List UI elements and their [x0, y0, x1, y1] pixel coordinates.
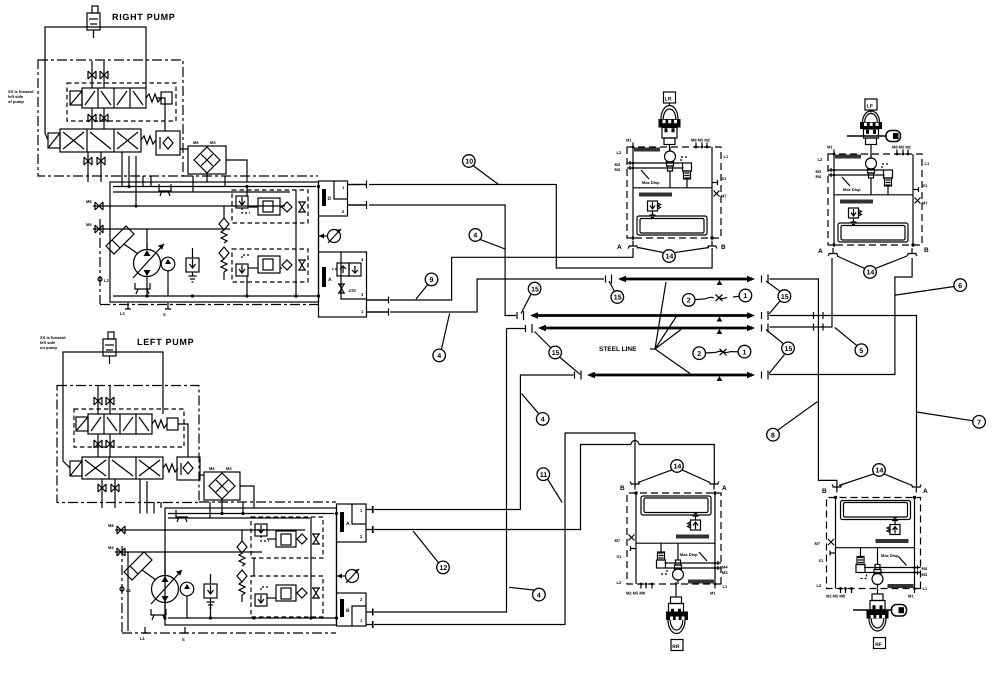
- motor RF core: [827, 496, 921, 593]
- A port block: [337, 504, 367, 542]
- flow tick line1: [717, 280, 723, 285]
- A block stub 2 tick: [366, 526, 373, 533]
- RF tiny labels: [815, 541, 928, 599]
- B block stub 1 tick: [366, 609, 373, 616]
- junction dots: [163, 616, 166, 619]
- X1 stub: [712, 180, 718, 185]
- callout 9: [416, 273, 438, 299]
- svg-text:M6: M6: [193, 140, 199, 145]
- svg-text:1: 1: [743, 349, 747, 356]
- motor core template drawn as LR motor: [627, 143, 721, 240]
- case drain port L2: [98, 277, 102, 281]
- interior manifold wires: [113, 186, 316, 188]
- svg-text:5: 5: [859, 348, 863, 355]
- M7 plug: [714, 191, 720, 197]
- wire X1 crossline: [633, 187, 712, 189]
- coupler break line1 right: [762, 275, 769, 284]
- callout 8: [767, 402, 818, 441]
- port marks left: [629, 161, 631, 170]
- case drain port L2: [120, 587, 124, 591]
- charge relief valve RV1: [186, 248, 199, 282]
- B block stub 2 tick: [366, 621, 373, 628]
- svg-text:L2: L2: [617, 580, 622, 585]
- svg-text:L1: L1: [140, 636, 145, 641]
- port L3: [125, 303, 131, 309]
- wire S1 right pump A1 to LR motor port A: [367, 248, 634, 300]
- displacement relief valve: [648, 201, 661, 218]
- svg-text:L1: L1: [723, 584, 728, 589]
- RF port B symbol: [832, 485, 842, 493]
- charge filter LF1: [204, 466, 240, 500]
- gauge LG1: [337, 569, 360, 583]
- interior riser wires: [295, 190, 297, 296]
- svg-text:L2: L2: [104, 278, 109, 283]
- wire W4 right pump D2 to steel line 2: [348, 205, 517, 316]
- callout 4 hose lower: [509, 587, 545, 601]
- svg-text:M8 M5 M2: M8 M5 M2: [892, 145, 912, 150]
- svg-text:M4: M4: [615, 167, 621, 172]
- A port stub S2 tick: [367, 309, 389, 316]
- svg-text:1: 1: [743, 293, 747, 300]
- svg-text:X1: X1: [819, 558, 825, 563]
- right boundary riser: [336, 542, 338, 593]
- dash-dot pump boundary upper: [57, 386, 199, 503]
- coupler break line4 left: [575, 371, 582, 380]
- callout 15 line2 left: [521, 282, 541, 313]
- svg-text:6: 6: [958, 283, 962, 290]
- svg-text:4: 4: [473, 233, 477, 240]
- pilot X pair below SV2: [84, 152, 105, 182]
- svg-text:LEFT PUMP: LEFT PUMP: [137, 337, 194, 347]
- svg-text:7: 7: [977, 420, 981, 427]
- svg-text:L2: L2: [617, 150, 622, 155]
- wire shuttle to filter: [200, 474, 204, 476]
- svg-text:M4: M4: [86, 222, 92, 227]
- wire steel line1 right extension to RF B: [770, 279, 837, 487]
- svg-text:B: B: [346, 608, 350, 614]
- inner dashed valve sub-box: [74, 409, 184, 447]
- svg-text:S: S: [182, 637, 185, 642]
- left supply line: [45, 61, 48, 140]
- hop arc over RR B riser: [631, 441, 639, 445]
- coupler symbol 2-x-1 upper: [682, 289, 751, 306]
- motor dashed enclosure: [627, 147, 721, 238]
- motor rotor circle: [665, 151, 676, 162]
- svg-text:2: 2: [697, 351, 701, 358]
- svg-text:4: 4: [537, 592, 541, 599]
- variable pump P1: [133, 243, 164, 278]
- steel line leader fan: [650, 282, 690, 374]
- svg-text:M4: M4: [922, 566, 928, 571]
- callout 15 lines34 right: [766, 330, 794, 374]
- coupling stack: [667, 162, 674, 166]
- RR brake and hub: [666, 582, 688, 651]
- svg-text:A: A: [346, 521, 350, 527]
- flow tick line2: [717, 317, 723, 322]
- dash-dot boundary lower-left: [121, 546, 123, 633]
- steel line 3: [538, 325, 755, 331]
- pilot orifice X pair above valve SV1: [88, 61, 108, 88]
- D port output line 2 tick: [348, 201, 367, 209]
- wire filter down: [206, 174, 208, 182]
- motor check group box LMC1: [251, 517, 323, 558]
- svg-text:L3: L3: [120, 311, 125, 316]
- wire SV1 to shuttle: [157, 98, 165, 131]
- svg-text:X1: X1: [617, 554, 623, 559]
- svg-text:M1: M1: [710, 591, 716, 596]
- svg-text:M7: M7: [922, 201, 928, 206]
- check column: [237, 530, 247, 602]
- svg-text:M4: M4: [722, 565, 728, 570]
- tank symbol: [176, 510, 188, 522]
- svg-text:M8: M8: [86, 199, 92, 204]
- svg-text:on pump: on pump: [40, 345, 57, 350]
- inlet check valve top: [103, 332, 116, 364]
- svg-text:L1: L1: [724, 154, 729, 159]
- pilot orifice X pair above valve LSV1: [94, 386, 114, 414]
- shuttle valve block: [156, 131, 180, 155]
- svg-text:RR: RR: [672, 644, 680, 650]
- pump feed riser: [146, 229, 148, 250]
- callout 7: [917, 412, 986, 428]
- A port stub S1 tick: [367, 297, 389, 304]
- motor check group box MC2: [232, 249, 308, 282]
- svg-text:M2 M5 M8: M2 M5 M8: [626, 591, 646, 596]
- callout 11: [537, 468, 562, 503]
- svg-text:Max Disp: Max Disp: [843, 187, 861, 192]
- D port block: [319, 181, 348, 216]
- svg-text:L1: L1: [925, 161, 930, 166]
- inner dashed valve sub-box: [67, 83, 176, 121]
- callout 5: [835, 327, 868, 356]
- solid reservoir box: [45, 27, 146, 61]
- feed wires into box: [146, 481, 148, 514]
- svg-text:L2: L2: [818, 157, 823, 162]
- test port ticks M8 M5 M2: [696, 143, 707, 148]
- callout 12: [413, 531, 449, 574]
- solid reservoir box: [63, 352, 163, 386]
- RR port B symbol: [630, 482, 640, 490]
- wire V_E left pump B1 to RR motor port A with hop: [373, 445, 714, 534]
- svg-text:S: S: [163, 312, 166, 317]
- wire filter right down: [240, 486, 254, 508]
- LR port B symbol: [707, 241, 717, 249]
- svg-text:A: A: [722, 485, 727, 492]
- charge relief valve LRV1: [204, 574, 217, 608]
- callout 10: [463, 155, 499, 185]
- wire M4 with orifice: [86, 222, 230, 233]
- svg-text:M1: M1: [908, 594, 914, 599]
- pump tank drain: [151, 609, 166, 620]
- svg-text:L2: L2: [126, 588, 131, 593]
- svg-text:15: 15: [614, 295, 622, 302]
- LR port A symbol: [628, 241, 638, 249]
- shuttle valve block: [177, 457, 200, 480]
- svg-text:15: 15: [785, 346, 793, 353]
- callout 4 hose B: [433, 314, 450, 362]
- wire S2 right pump A2 to steel line 1: [367, 279, 605, 312]
- RR port A symbol: [709, 482, 719, 490]
- wire M4: [627, 167, 684, 169]
- svg-text:D: D: [328, 196, 332, 202]
- svg-text:LF: LF: [867, 104, 873, 110]
- svg-text:A: A: [328, 277, 332, 283]
- svg-text:14: 14: [867, 270, 875, 277]
- main spool valve SV2: [48, 129, 156, 152]
- wire M3: [627, 162, 683, 164]
- coupler break line3 right: [762, 324, 769, 333]
- A port block: [319, 252, 367, 317]
- wire V_B steel line3 to left pump A1: [373, 329, 507, 616]
- steel line 3 left stub to left pump riser: [507, 324, 533, 333]
- callout 4 hose A: [469, 229, 505, 249]
- svg-text:X1: X1: [722, 176, 728, 181]
- left supply line: [63, 386, 70, 468]
- svg-text:4: 4: [541, 417, 545, 424]
- coupler symbol 2-x-1 lower: [693, 345, 751, 359]
- wire V_D left pump B2 to RR motor port B: [373, 433, 635, 628]
- callout 15 lines34 left: [535, 332, 581, 375]
- pump feed riser: [164, 552, 166, 576]
- svg-text:L1: L1: [923, 586, 928, 591]
- svg-text:A: A: [617, 244, 622, 251]
- servo piston: [124, 552, 156, 580]
- coupler break line2 right: [762, 311, 769, 320]
- coupler break line4 right: [762, 371, 769, 380]
- svg-text:M8 M5 M2: M8 M5 M2: [691, 138, 711, 143]
- wire M8 with orifice: [108, 523, 305, 534]
- svg-text:A: A: [923, 488, 928, 495]
- svg-text:X1: X1: [923, 183, 929, 188]
- servo piston: [106, 226, 138, 254]
- variable pump LP1: [151, 569, 182, 604]
- pilot X pair below SV1: [88, 108, 108, 129]
- port S: [165, 303, 171, 309]
- wire M4 with orifice: [108, 545, 262, 556]
- coupler break line1 left: [606, 275, 612, 284]
- pilot X pair below LSV1: [94, 434, 114, 457]
- interior manifold wires: [168, 513, 334, 515]
- junction dots: [145, 294, 148, 297]
- LF brake and hub: [847, 99, 901, 158]
- port riser A: [632, 147, 634, 238]
- steel line 2 left stub coupler: [517, 311, 524, 320]
- wire steel line3 right extension to LF A: [770, 258, 833, 327]
- svg-text:Max Disp: Max Disp: [642, 180, 660, 185]
- feed wires into box: [128, 156, 130, 186]
- svg-text:B: B: [822, 488, 827, 495]
- max displacement bar: [639, 193, 672, 197]
- svg-text:14: 14: [666, 254, 674, 261]
- pilot X pair below LSV2: [98, 479, 119, 508]
- callout 4 steel riser left: [522, 394, 550, 426]
- wire shuttle to filter: [180, 148, 188, 150]
- bottom interior wire: [113, 295, 318, 297]
- LF tiny labels: [816, 145, 930, 206]
- svg-text:4: 4: [437, 353, 441, 360]
- svg-text:B: B: [721, 244, 726, 251]
- motor LF core: [828, 150, 922, 247]
- svg-text:M6: M6: [209, 466, 215, 471]
- charge pump P2: [161, 257, 175, 271]
- steel line 4: [587, 372, 755, 378]
- svg-text:M2 M5 M8: M2 M5 M8: [826, 594, 846, 599]
- svg-text:12: 12: [440, 565, 448, 572]
- wire filter right down: [226, 160, 247, 182]
- wire W10 right pump D1 to LR motor port B: [348, 185, 713, 269]
- svg-text:8: 8: [771, 432, 775, 439]
- steel line 2: [530, 312, 755, 318]
- charge filter F1: [188, 140, 226, 174]
- speed sensor bar: [634, 148, 660, 152]
- svg-text:14: 14: [674, 464, 682, 471]
- steel line 1: [618, 276, 755, 282]
- check column CC1: [219, 206, 229, 280]
- dash-dot boundary lower-left: [99, 219, 101, 304]
- callout 14 LF: [837, 256, 907, 278]
- bottom interior wire: [168, 617, 336, 619]
- LR tiny labels: [615, 138, 729, 199]
- flow tick line3: [717, 329, 723, 334]
- wire filter down: [221, 500, 223, 514]
- lower pump solid box: [165, 508, 337, 625]
- svg-text:14: 14: [876, 468, 884, 475]
- svg-text:M4: M4: [816, 174, 822, 179]
- svg-text:15: 15: [552, 350, 560, 357]
- svg-text:M3: M3: [226, 466, 232, 471]
- M1 tick: [632, 143, 634, 148]
- motor check group box LMC2: [251, 576, 323, 617]
- port S: [182, 627, 188, 633]
- svg-text:M1: M1: [827, 145, 833, 150]
- crossover marks on line3 ext at x818: [814, 324, 824, 331]
- svg-text:A: A: [818, 248, 823, 255]
- svg-text:B: B: [924, 247, 929, 254]
- LF port A symbol: [828, 248, 838, 256]
- directional spool valve LSV1: [76, 414, 178, 434]
- charge pump LP2: [180, 582, 194, 596]
- left boundary drain line: [127, 552, 129, 631]
- oil tank: [637, 216, 707, 235]
- svg-text:M7: M7: [721, 194, 727, 199]
- main spool valve LSV2: [70, 457, 178, 479]
- dash-dot pump boundary upper: [38, 60, 183, 176]
- svg-text:2: 2: [687, 298, 691, 305]
- gauge G1: [319, 229, 342, 243]
- RR tiny labels: [615, 538, 729, 596]
- motor check group box MC1: [232, 190, 308, 223]
- svg-text:LR: LR: [665, 97, 672, 103]
- svg-text:.070: .070: [348, 288, 357, 293]
- max disp leader: [641, 170, 649, 179]
- frame junction dots: [631, 236, 634, 239]
- svg-text:M3: M3: [722, 570, 728, 575]
- svg-text:L2: L2: [817, 583, 822, 588]
- svg-text:RIGHT PUMP: RIGHT PUMP: [112, 12, 176, 22]
- LF port B symbol: [907, 248, 917, 256]
- callout 14 RF: [839, 464, 912, 486]
- callout 14 LR: [638, 248, 709, 263]
- svg-text:M3: M3: [922, 572, 928, 577]
- dash-dot boundary segment to D block: [183, 175, 318, 177]
- A block stub 1 tick: [366, 506, 373, 513]
- right boundary riser: [318, 216, 320, 252]
- lower pump solid box: [110, 182, 319, 302]
- wire V_C steel line4 to left pump A2: [373, 375, 574, 513]
- svg-text:M7: M7: [815, 541, 821, 546]
- LR brake and hub: [659, 92, 681, 152]
- svg-text:M4: M4: [108, 545, 114, 550]
- svg-text:Max Disp: Max Disp: [881, 553, 899, 558]
- svg-text:15: 15: [781, 294, 789, 301]
- svg-text:10: 10: [465, 159, 473, 166]
- D port output line 1 tick: [348, 181, 367, 189]
- interior riser wires: [310, 517, 312, 618]
- port L1: [142, 627, 148, 633]
- svg-text:STEEL LINE: STEEL LINE: [599, 346, 637, 353]
- svg-text:15: 15: [531, 286, 539, 293]
- svg-text:11: 11: [540, 472, 548, 479]
- svg-text:9: 9: [430, 277, 434, 284]
- RF brake and hub: [853, 589, 907, 649]
- RF port A symbol: [911, 485, 921, 493]
- svg-text:Max Disp: Max Disp: [680, 552, 698, 557]
- svg-text:RF: RF: [875, 642, 882, 648]
- crossover marks on line2 ext at x818: [814, 312, 824, 319]
- svg-text:M3: M3: [210, 140, 216, 145]
- inlet check valve V0 top: [87, 6, 100, 38]
- callout 6: [895, 279, 966, 295]
- dash-dot boundary segment to A block: [199, 501, 336, 503]
- B port block: [337, 593, 367, 626]
- svg-text:M8: M8: [108, 523, 114, 528]
- callout 15 lines12 right: [766, 281, 791, 314]
- wire LSV1 to shuttle: [178, 424, 188, 457]
- tank symbol T1: [159, 184, 171, 196]
- directional spool valve SV1: [70, 88, 172, 108]
- svg-text:M1: M1: [626, 138, 632, 143]
- svg-text:B: B: [620, 485, 625, 492]
- wire steel line2 right extension to RF A: [770, 316, 917, 487]
- svg-text:M7: M7: [615, 538, 621, 543]
- pump tank drain: [135, 283, 150, 294]
- flow tick line4: [717, 376, 723, 381]
- shuttle cluster: [681, 157, 689, 161]
- callout 15 line1 left: [609, 281, 624, 303]
- callout 14 RR: [638, 460, 710, 483]
- port riser B: [711, 147, 713, 238]
- motor RR core: [627, 491, 721, 588]
- wire steel line4 right extension to LF B: [770, 258, 913, 375]
- wire M8 with orifice: [86, 199, 285, 210]
- svg-text:of pump: of pump: [8, 99, 24, 104]
